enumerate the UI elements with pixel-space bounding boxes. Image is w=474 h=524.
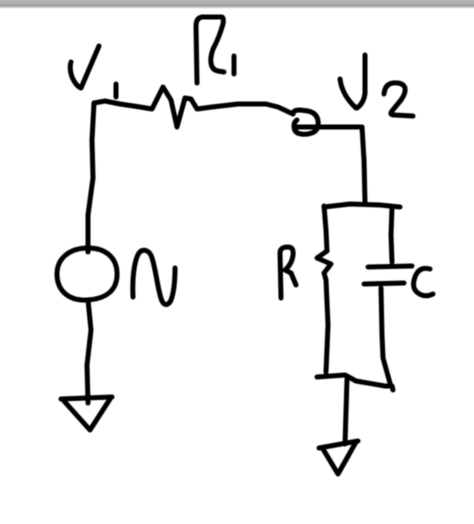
AC source sine squiggle <box>133 250 175 304</box>
loop junction blob <box>293 110 318 134</box>
node V1 label V <box>70 46 99 88</box>
wire blob to node V2 <box>295 125 362 130</box>
resistor R upper lead <box>324 206 327 251</box>
bottom bus bar of RC <box>317 375 393 390</box>
node V2 label 2 <box>384 83 413 116</box>
resistor R squiggle <box>317 251 331 280</box>
left ground bar <box>61 397 112 399</box>
wire bottom bus to right ground <box>345 379 347 444</box>
AC source circle <box>57 248 117 300</box>
right ground bar <box>319 441 358 448</box>
wire top horizontal with resistor R1 <box>94 87 293 127</box>
capacitor top lead <box>391 207 392 262</box>
top bus bar of RC <box>324 204 400 207</box>
resistor label R <box>280 247 296 298</box>
right ground triangle <box>323 442 356 474</box>
resistor label subscript 1 <box>232 56 237 74</box>
resistor R lower lead <box>326 280 328 372</box>
wire V2 vertical down <box>362 127 365 202</box>
left ground triangle <box>64 399 110 430</box>
wire source to ground <box>87 300 91 403</box>
capacitor top plate <box>368 266 412 267</box>
resistor label R1 <box>196 17 224 83</box>
toolbar strip <box>0 0 474 9</box>
node V1 label subscript 1 <box>114 84 119 97</box>
wire V1 vertical to source <box>88 103 94 252</box>
capacitor bottom plate <box>364 283 404 284</box>
capacitor bottom lead <box>381 288 390 383</box>
capacitor label C <box>414 268 433 295</box>
node V2 label V <box>340 79 356 108</box>
